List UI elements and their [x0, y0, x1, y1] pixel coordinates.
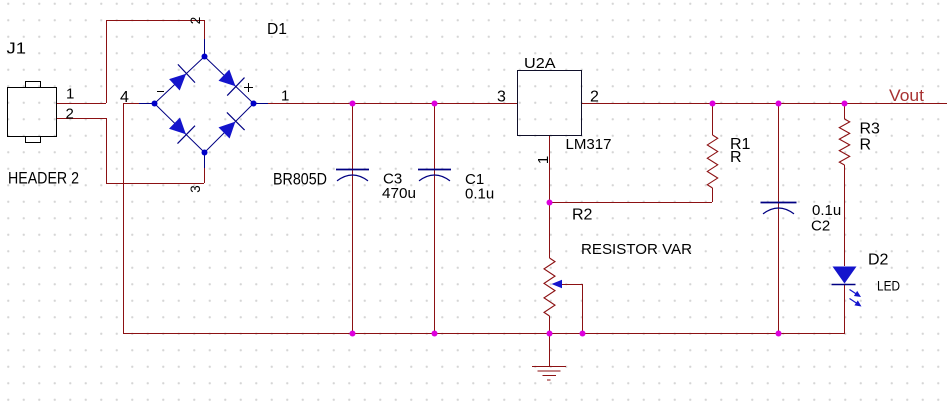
svg-text:C2: C2 — [811, 218, 830, 235]
svg-text:1: 1 — [535, 156, 552, 164]
svg-text:HEADER 2: HEADER 2 — [8, 169, 79, 188]
svg-text:R: R — [730, 149, 742, 166]
svg-text:2: 2 — [590, 89, 599, 106]
svg-text:4: 4 — [120, 89, 129, 106]
svg-text:3: 3 — [497, 89, 506, 106]
svg-text:R2: R2 — [572, 207, 593, 224]
svg-text:R: R — [860, 137, 872, 154]
svg-text:U2A: U2A — [524, 55, 556, 72]
svg-text:1: 1 — [281, 88, 289, 105]
svg-text:LED: LED — [877, 278, 900, 294]
svg-text:J1: J1 — [7, 41, 27, 58]
svg-text:470u: 470u — [382, 185, 416, 202]
svg-text:D2: D2 — [868, 252, 889, 269]
svg-text:BR805D: BR805D — [273, 170, 327, 189]
svg-text:0.1u: 0.1u — [465, 186, 494, 203]
svg-text:2: 2 — [188, 17, 203, 25]
svg-text:D1: D1 — [267, 21, 287, 38]
svg-text:R3: R3 — [860, 121, 881, 138]
svg-text:0.1u: 0.1u — [812, 202, 841, 219]
svg-text:1: 1 — [66, 86, 74, 103]
svg-text:RESISTOR VAR: RESISTOR VAR — [581, 241, 692, 258]
svg-text:LM317: LM317 — [566, 136, 612, 153]
svg-text:Vout: Vout — [889, 86, 924, 105]
svg-text:2: 2 — [66, 106, 74, 123]
svg-text:3: 3 — [188, 185, 203, 193]
